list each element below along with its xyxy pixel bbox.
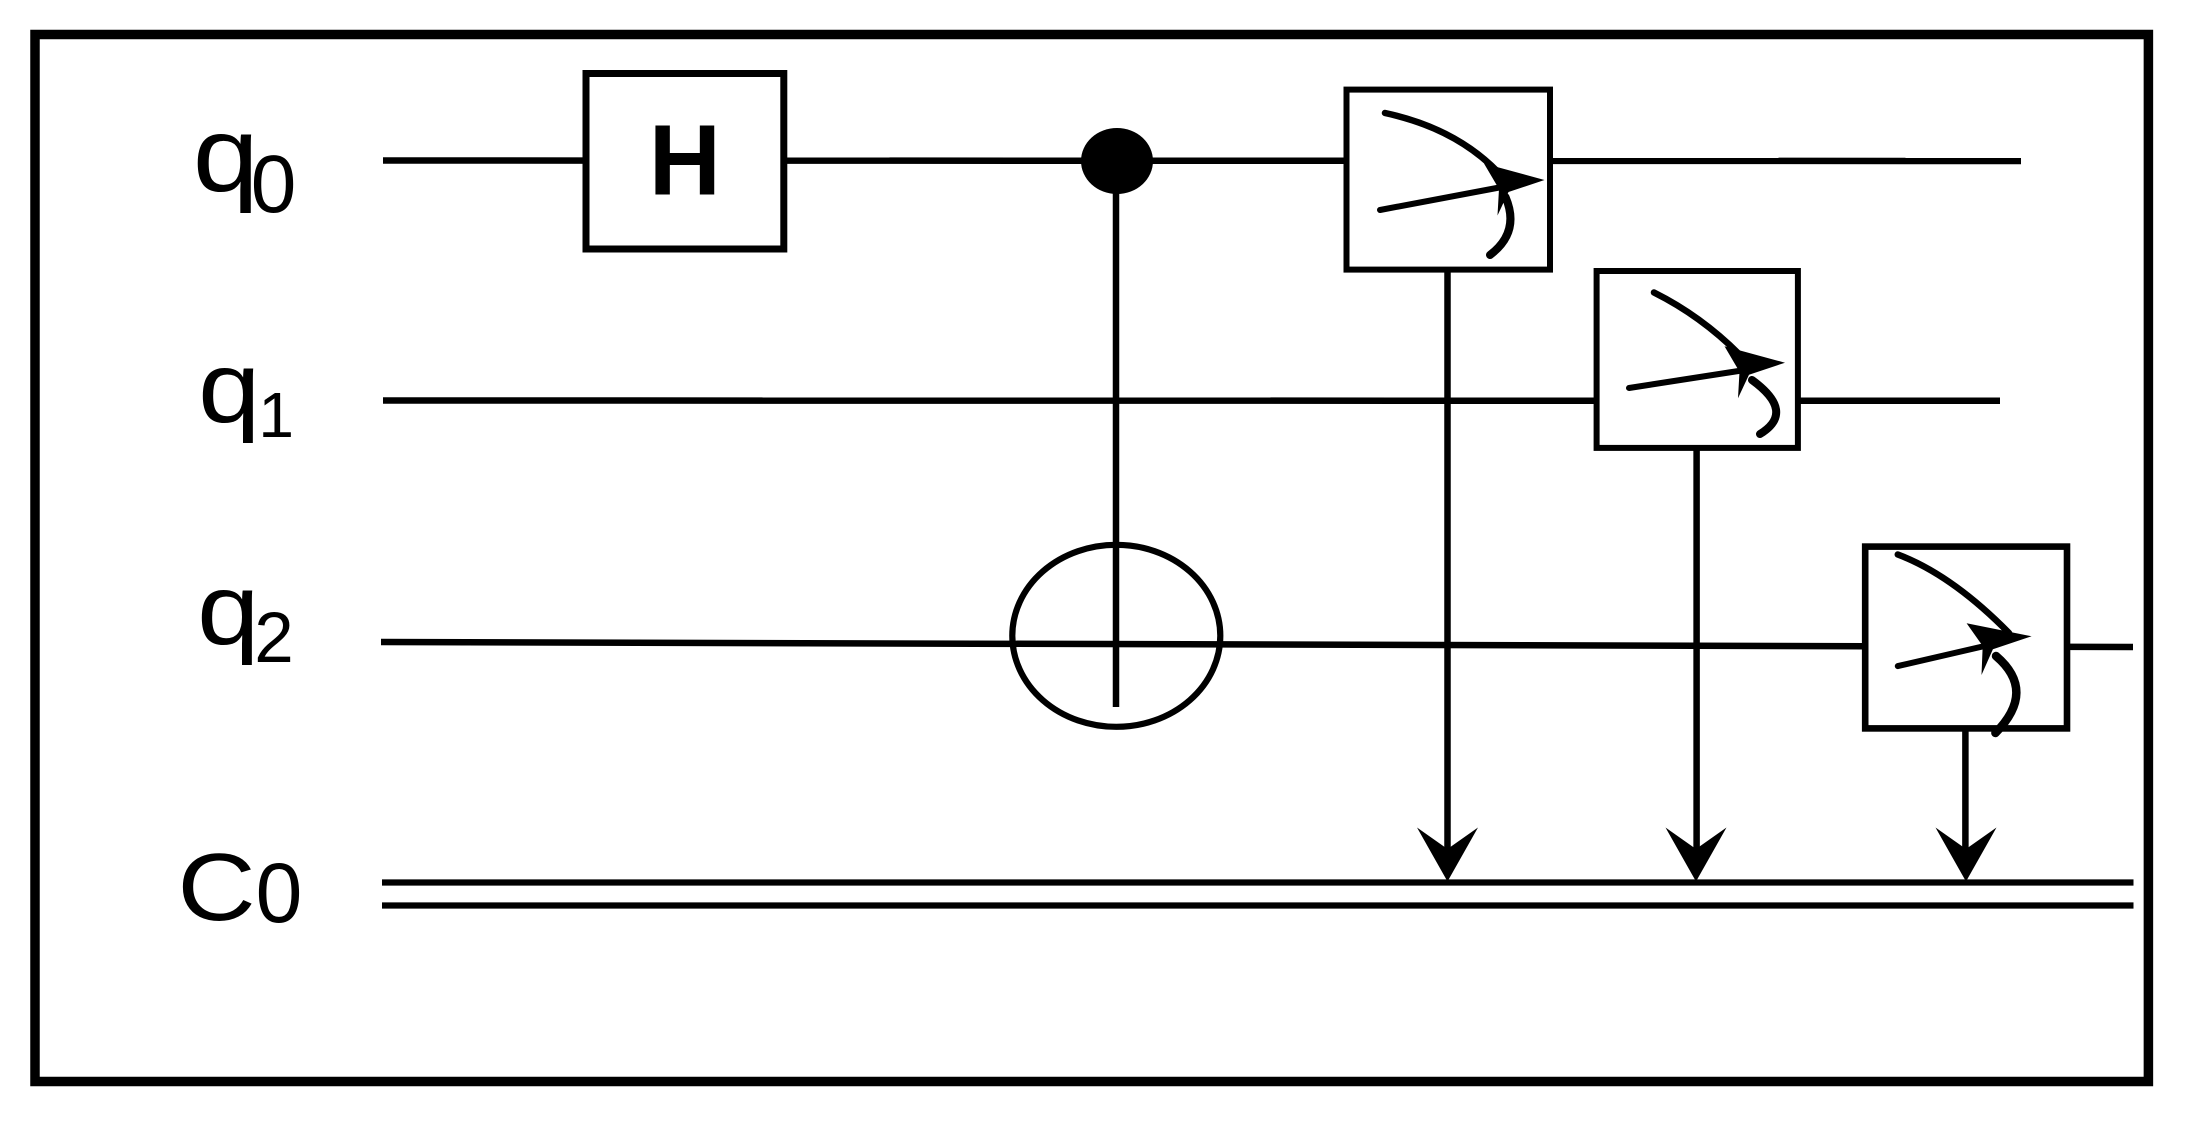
arrowhead M3: [1936, 828, 1997, 882]
wire q1: [383, 397, 2000, 404]
svg-text:C: C: [177, 833, 255, 941]
svg-text:1: 1: [258, 379, 294, 451]
measurement box M1 on q0: [1347, 90, 1551, 270]
svg-text:q: q: [197, 555, 259, 666]
CNOT target on q2 (XOR circle): [1012, 545, 1220, 727]
measurement wire M2 to C0: [1693, 448, 1700, 870]
svg-text:q: q: [198, 333, 260, 444]
measurement box M3 on q2: [1865, 547, 2067, 729]
wire q2: [381, 642, 2133, 647]
H gate box on q0: [586, 74, 784, 250]
CNOT vertical wire (control to target): [1113, 161, 1120, 707]
CNOT control dot on q0: [1081, 128, 1153, 194]
measurement glyph M1: [1380, 113, 1545, 255]
svg-text:0: 0: [251, 139, 297, 230]
svg-text:H: H: [649, 105, 721, 217]
measurement box M2 on q1: [1597, 271, 1798, 448]
svg-text:q: q: [193, 95, 259, 214]
measurement wire M3 to C0: [1962, 728, 1969, 870]
svg-text:0: 0: [256, 846, 303, 940]
measurement glyph M3: [1898, 555, 2032, 734]
arrowhead M1: [1417, 828, 1478, 882]
svg-text:2: 2: [254, 599, 294, 678]
measurement wire M1 to C0: [1444, 270, 1451, 870]
wire q0: [383, 157, 2021, 164]
classical wire C0 (double line): [382, 879, 2134, 885]
measurement glyph M2: [1629, 293, 1785, 435]
arrowhead M2: [1666, 828, 1727, 882]
